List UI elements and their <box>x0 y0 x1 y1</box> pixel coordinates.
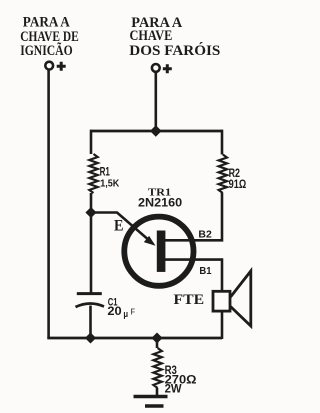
wire: headlight terminal lead down to top rail junction <box>155 72 158 131</box>
node label: PARA A CHAVE DOS FAROIS <box>129 15 220 59</box>
wire: R2 bottom lead down and left to base B2 <box>165 193 222 240</box>
ground bar 1 <box>134 395 168 398</box>
wire: C1 bottom lead to bottom rail <box>89 306 92 339</box>
plus sign: headlights <box>163 64 172 73</box>
emitter arrowhead <box>144 236 156 246</box>
resistor R2 zigzag <box>219 155 227 194</box>
wire: R3 bottom lead to ground <box>156 388 159 397</box>
svg-text:E: E <box>114 218 124 235</box>
svg-text:DOS FARÓIS: DOS FARÓIS <box>129 42 220 59</box>
label TR1 / 2N2160 <box>138 187 182 210</box>
label R1 <box>100 167 120 190</box>
resistor R3 zigzag <box>153 348 161 388</box>
junction dot: headlight lead on top rail <box>150 125 162 137</box>
svg-text:2N2160: 2N2160 <box>138 198 182 210</box>
transistor TR1 base bar <box>157 231 166 272</box>
label R3 <box>165 363 197 396</box>
transistor TR1 circle <box>124 217 193 286</box>
wire: left rail from ignition terminal to bottom rail <box>47 70 50 339</box>
wire: top rail to R1 <box>90 130 93 154</box>
svg-text:F: F <box>131 308 136 317</box>
resistor R1 zigzag <box>89 154 97 193</box>
label C1 <box>107 296 135 319</box>
ground bar 2 <box>145 404 164 407</box>
capacitor C1 curved bottom plate <box>76 303 105 307</box>
svg-text:μ: μ <box>123 309 128 319</box>
wire: B1 lead from bar, right then down to speaker <box>165 260 222 292</box>
svg-text:CHAVE: CHAVE <box>130 28 173 44</box>
junction dot: C1 on bottom rail <box>85 333 96 344</box>
junction dot: emitter node <box>85 207 96 218</box>
speaker FTE frame <box>213 291 230 311</box>
svg-text:B2: B2 <box>198 230 212 241</box>
wire: emitter lead diagonal into bar <box>91 213 151 242</box>
svg-text:R2: R2 <box>229 168 240 180</box>
junction dot: R3 on bottom rail <box>151 333 162 344</box>
plus sign: ignition <box>57 62 66 71</box>
wire: bottom rail <box>47 337 222 340</box>
svg-text:IGNICÃO: IGNICÃO <box>20 41 72 59</box>
speaker FTE horn cone <box>231 271 251 326</box>
wire: top rail to R2 <box>221 130 224 155</box>
svg-text:FTE: FTE <box>174 292 205 308</box>
terminal circle: headlights <box>152 64 160 72</box>
svg-text:2W: 2W <box>165 384 182 396</box>
node label: PARA A CHAVE DE IGNICAO <box>20 15 79 59</box>
capacitor C1 top plate <box>77 292 102 295</box>
svg-text:1,5K: 1,5K <box>100 177 119 189</box>
wire: speaker bottom lead to bottom rail <box>221 311 224 339</box>
svg-text:20: 20 <box>107 306 121 318</box>
terminal circle: ignition <box>45 62 53 70</box>
label R2 <box>229 168 247 191</box>
wire: bottom rail to R3 <box>156 338 159 348</box>
svg-text:B1: B1 <box>199 266 212 277</box>
svg-text:91Ω: 91Ω <box>229 179 247 191</box>
wire: R1 bottom through emitter junction down to C1 <box>90 193 93 294</box>
wire: top inner rail <box>91 130 222 133</box>
